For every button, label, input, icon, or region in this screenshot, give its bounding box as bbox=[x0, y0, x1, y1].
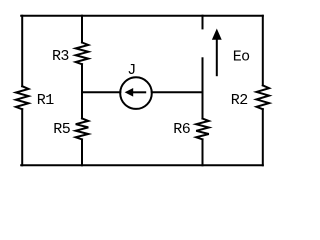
current source J circle bbox=[120, 77, 152, 109]
current source J arrow bbox=[125, 88, 147, 97]
resistor R2 bbox=[257, 85, 270, 109]
svg-text:Eo: Eo bbox=[233, 48, 250, 65]
wire inner-left vertical above R3 bbox=[81, 16, 83, 43]
svg-text:R6: R6 bbox=[173, 121, 190, 138]
wire right inner vertical below gap bbox=[202, 58, 204, 118]
svg-text:R1: R1 bbox=[37, 92, 54, 109]
wire right inner vertical top stub bbox=[202, 16, 204, 29]
Eo arrow bbox=[212, 29, 222, 77]
svg-text:R5: R5 bbox=[53, 121, 70, 138]
wire top rail bbox=[21, 15, 263, 17]
resistor R3 bbox=[76, 43, 89, 65]
wire middle left of current source bbox=[82, 91, 120, 93]
resistor R6 bbox=[196, 119, 209, 140]
wire left edge lower segment bbox=[21, 109, 23, 165]
resistor R5 bbox=[76, 118, 89, 139]
wire right inner vertical below R6 bbox=[202, 139, 204, 165]
resistor R1 bbox=[16, 86, 29, 109]
wire bottom rail bbox=[21, 164, 263, 166]
svg-text:R3: R3 bbox=[52, 48, 69, 65]
svg-text:J: J bbox=[127, 62, 135, 79]
wire inner-left vertical below R5 bbox=[81, 139, 83, 165]
wire right edge upper segment bbox=[262, 16, 264, 86]
wire right edge lower segment bbox=[262, 109, 264, 165]
svg-text:R2: R2 bbox=[231, 92, 248, 109]
wire middle right of current source bbox=[152, 91, 203, 93]
wire inner-left vertical between R3 and R5 bbox=[81, 64, 83, 118]
wire left edge upper segment bbox=[21, 16, 23, 87]
